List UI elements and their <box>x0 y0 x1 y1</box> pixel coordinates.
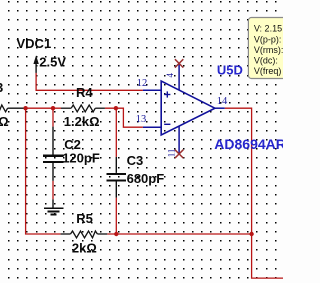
svg-text:2kΩ: 2kΩ <box>72 241 97 256</box>
svg-text:V: 2.15: V: 2.15 <box>254 24 282 34</box>
junction node A / C3-R4 <box>114 106 118 110</box>
svg-text:3: 3 <box>0 80 3 95</box>
junction bottom rail / output <box>249 232 253 236</box>
wire C2 bottom to ground <box>52 181 54 200</box>
svg-text:C3: C3 <box>127 153 144 168</box>
junction bottom rail / C3 <box>114 232 118 236</box>
svg-text:2.5V: 2.5V <box>39 55 66 70</box>
ground <box>44 199 63 214</box>
wire R4 right to inverting input jog <box>105 108 143 127</box>
wire node A junction to C3 top <box>115 108 117 157</box>
svg-text:AD8694AR: AD8694AR <box>214 136 283 152</box>
wire op-amp output to right vertical and bottom edge <box>225 108 283 278</box>
junction node A left <box>23 106 27 110</box>
wire VDC1 to non-inverting input <box>36 73 143 90</box>
capacitor C2 120pF <box>43 127 100 181</box>
svg-text:1.2kΩ: 1.2kΩ <box>64 114 100 129</box>
svg-text:V(freq): V(freq) <box>254 66 282 76</box>
wire top rail node A (red) <box>24 107 61 109</box>
svg-text:VDC1: VDC1 <box>17 36 52 51</box>
resistor R3 (partial, left edge) <box>0 80 24 129</box>
junction node A / C2 <box>51 106 55 110</box>
svg-text:14: 14 <box>217 96 228 107</box>
wire node A to C2 top <box>52 108 54 126</box>
svg-text:V(p-p):: V(p-p): <box>254 34 282 44</box>
svg-text:U5D: U5D <box>217 63 243 78</box>
capacitor C3 680pF <box>106 153 164 198</box>
svg-text:R4: R4 <box>76 85 93 100</box>
resistor R4 <box>61 85 105 129</box>
svg-text:120pF: 120pF <box>62 151 100 166</box>
unconnected marker X (V- rail) <box>175 150 183 158</box>
svg-text:13: 13 <box>136 114 147 125</box>
voltage source VDC1 2.5V (power arrow) <box>17 36 67 73</box>
op-amp U5D <box>143 64 225 154</box>
svg-text:4: 4 <box>165 73 175 78</box>
wire bottom rail <box>107 233 251 235</box>
wire C3 bottom to bottom rail <box>115 198 117 234</box>
resistor R5 2kΩ <box>61 211 108 256</box>
svg-text:kΩ: kΩ <box>0 114 9 129</box>
svg-text:V(dc):: V(dc): <box>254 56 278 66</box>
svg-text:12: 12 <box>137 78 148 89</box>
unconnected marker X (V+ rail) <box>175 59 183 67</box>
svg-text:R5: R5 <box>76 211 93 226</box>
svg-text:680pF: 680pF <box>127 171 165 186</box>
wire left feedback vertical to bottom rail <box>26 108 61 234</box>
svg-text:V(rms):: V(rms): <box>254 45 283 55</box>
probe tooltip box <box>248 18 290 79</box>
